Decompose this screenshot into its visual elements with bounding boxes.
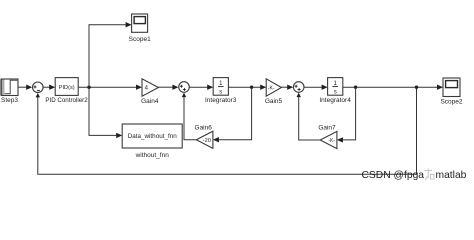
label Step3 <box>1 97 18 104</box>
svg-text:without_fnn: without_fnn <box>135 152 170 159</box>
label Gain6 <box>195 125 213 132</box>
scope block Scope1 <box>132 14 148 32</box>
watermark CSDN <box>362 169 467 182</box>
PID controller block PID Controller2 <box>55 78 78 96</box>
junction node on Integrator4 output <box>354 86 357 89</box>
svg-text:PID(s): PID(s) <box>59 85 75 91</box>
svg-text:Gain6: Gain6 <box>195 125 213 132</box>
junction node on Integrator3 output <box>250 86 253 89</box>
wire Gain5 to Sum3 <box>281 85 293 90</box>
sum junction Sum1 <box>33 82 44 93</box>
junction node on PID output <box>87 86 90 89</box>
svg-text:CSDN @fpga: CSDN @fpga <box>362 170 425 181</box>
label Integrator3 <box>205 97 237 104</box>
wire outer feedback Scope2 branch to Sum1 <box>36 87 417 174</box>
gain Gain5 <box>266 79 281 96</box>
gain Gain6 <box>196 131 213 148</box>
wire Sum1 to PID Controller2 <box>43 85 55 90</box>
wire Integrator4 branch to Gain7 <box>337 88 356 143</box>
wire Integrator3 branch to Gain6 <box>213 88 252 143</box>
gain Gain4 <box>142 79 158 96</box>
svg-text:Gain4: Gain4 <box>141 98 159 105</box>
gain Gain7 <box>320 131 337 148</box>
wire Gain7 to Sum3 <box>297 93 321 140</box>
svg-text:Integrator4: Integrator4 <box>319 97 351 104</box>
svg-text:Integrator3: Integrator3 <box>205 97 237 104</box>
wire branch junction to Data_without_fnn <box>89 88 122 139</box>
wire Gain4 to Sum2 <box>158 85 178 90</box>
label Gain5 <box>265 98 283 105</box>
wire Sum3 to Integrator4 <box>304 85 328 90</box>
svg-text:PID Controller2: PID Controller2 <box>45 97 88 104</box>
svg-text:-20: -20 <box>203 138 211 144</box>
svg-text:-K-: -K- <box>268 86 275 92</box>
label Integrator4 <box>319 97 351 104</box>
label PID Controller2 <box>45 97 88 104</box>
wire branch junction to Scope1 <box>89 22 132 87</box>
wire Gain6 to Sum2 <box>182 93 197 140</box>
svg-text:Gain5: Gain5 <box>265 98 283 105</box>
svg-text:s: s <box>219 89 222 95</box>
scope block Scope2 <box>443 78 460 97</box>
svg-text:Data_without_fnn: Data_without_fnn <box>128 133 178 140</box>
sum junction Sum2 <box>179 82 190 93</box>
svg-text:matlab: matlab <box>436 170 467 181</box>
label without_fnn <box>135 152 170 159</box>
svg-text:Scope1: Scope1 <box>129 36 151 43</box>
wire PID Controller2 to Gain4 <box>78 85 142 90</box>
integrator block Integrator4 <box>328 78 343 96</box>
svg-text:Scope2: Scope2 <box>440 99 462 106</box>
wire Integrator4 to Scope2 <box>343 85 443 90</box>
label Gain7 <box>318 125 336 132</box>
svg-text:-K-: -K- <box>328 138 335 144</box>
label Scope1 <box>129 36 151 43</box>
label Scope2 <box>440 99 462 106</box>
step source Step3 <box>0 79 18 96</box>
svg-text:Step3: Step3 <box>1 97 18 104</box>
junction node outer feedback tap <box>415 86 418 89</box>
wire Step3 to Sum1 <box>18 85 32 90</box>
integrator block Integrator3 <box>213 78 228 96</box>
data store block Data_without_fnn <box>122 124 182 148</box>
label Gain4 <box>141 98 159 105</box>
svg-text:s: s <box>334 89 337 95</box>
sum junction Sum3 <box>293 82 304 93</box>
wire Sum2 to Integrator3 <box>189 85 213 90</box>
svg-text:Gain7: Gain7 <box>318 125 336 132</box>
wire Integrator3 to Gain5 <box>228 85 266 90</box>
